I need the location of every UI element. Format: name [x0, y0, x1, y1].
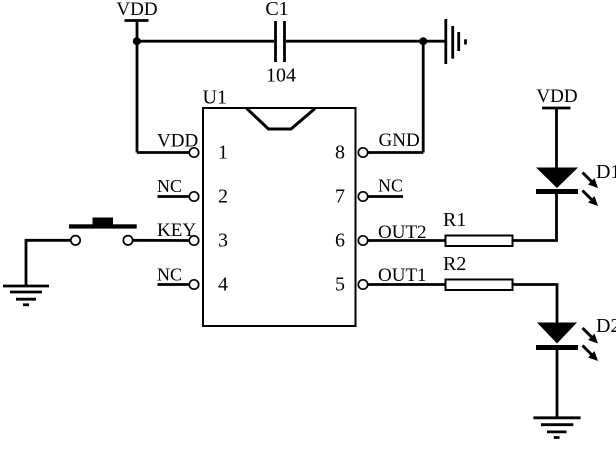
svg-text:D1: D1 — [596, 161, 616, 183]
svg-text:D2: D2 — [596, 315, 616, 337]
LED D1 — [536, 168, 598, 207]
wire button to ground — [26, 240, 71, 286]
power VDD (top-left) — [116, 0, 157, 21]
wire to pin 8 (GND) — [368, 151, 423, 154]
svg-text:GND: GND — [379, 130, 420, 151]
op-amp U1 body — [203, 87, 356, 327]
resistor R2 — [443, 253, 513, 290]
svg-text:U1: U1 — [203, 87, 227, 109]
ground (bottom left) — [3, 286, 49, 305]
svg-text:VDD: VDD — [157, 131, 198, 152]
svg-text:R2: R2 — [443, 253, 466, 275]
ground (bottom right) — [533, 418, 580, 438]
svg-text:104: 104 — [266, 65, 296, 87]
push button S1 (KEY) — [69, 218, 137, 246]
svg-text:7: 7 — [335, 186, 345, 208]
wire D1 cathode to R1 — [514, 194, 557, 241]
wire pin 6 to R1 — [368, 239, 445, 242]
svg-text:6: 6 — [335, 230, 345, 252]
svg-text:C1: C1 — [265, 0, 288, 20]
svg-text:4: 4 — [218, 274, 228, 296]
wire C1 right plate to earth ground — [286, 40, 445, 43]
node junction at VDD rail — [133, 37, 141, 45]
wire VDD rail vertical to pin 1 — [136, 21, 139, 153]
pin 5 — [335, 274, 368, 296]
wire D2 cathode to ground — [556, 350, 559, 417]
wire NC stub pin 7 — [368, 195, 403, 198]
pin 4 — [189, 274, 228, 296]
earth ground (top right) — [446, 19, 466, 64]
svg-text:3: 3 — [218, 230, 228, 252]
wire VDD rail to C1 left plate — [137, 40, 274, 43]
wire GND rail vertical to pin 8 — [422, 41, 425, 152]
pin 7 — [335, 186, 368, 208]
svg-text:NC: NC — [157, 265, 182, 285]
LED D2 — [536, 323, 598, 362]
power VDD (right) — [536, 86, 577, 108]
node junction at GND rail — [419, 37, 427, 45]
pin 8 — [335, 142, 368, 164]
wire NC stub pin 4 — [158, 283, 190, 286]
pin 3 — [189, 230, 228, 252]
wire R2 to D2 anode — [514, 285, 558, 323]
wire NC stub pin 2 — [158, 195, 190, 198]
wire button to pin 3 (KEY) — [133, 239, 189, 242]
capacitor C1 — [265, 0, 288, 62]
svg-text:NC: NC — [157, 176, 182, 196]
svg-text:5: 5 — [335, 274, 345, 296]
wire pin 5 to R2 — [368, 283, 445, 286]
pin 6 — [335, 230, 368, 252]
resistor R1 — [443, 209, 513, 246]
wire to pin 1 (VDD) — [137, 151, 190, 154]
svg-text:8: 8 — [335, 142, 345, 164]
svg-text:NC: NC — [378, 176, 403, 196]
svg-text:VDD: VDD — [536, 86, 577, 107]
svg-text:1: 1 — [218, 142, 228, 164]
pin 1 — [189, 142, 228, 164]
svg-text:2: 2 — [218, 186, 228, 208]
svg-text:OUT1: OUT1 — [378, 265, 427, 286]
pin 2 — [189, 186, 228, 208]
svg-text:KEY: KEY — [157, 220, 196, 241]
svg-text:R1: R1 — [443, 209, 466, 231]
wire VDD to D1 anode — [555, 108, 558, 168]
svg-text:VDD: VDD — [116, 0, 157, 20]
